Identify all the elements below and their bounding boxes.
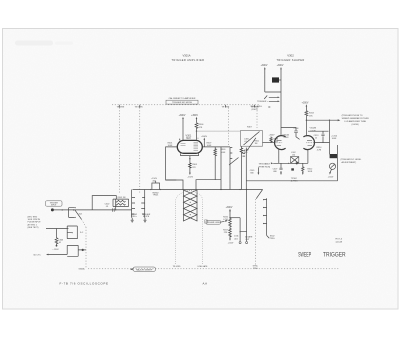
- svg-text:AT TRIG 1: AT TRIG 1: [28, 223, 38, 226]
- svg-text:6U8: 6U8: [186, 138, 191, 140]
- left frame verticals: [245, 148, 247, 190]
- switch section C: [67, 226, 84, 239]
- C311 chain: [234, 190, 253, 244]
- R307 label right of tube: [207, 143, 213, 148]
- svg-text:+300V: +300V: [302, 103, 309, 105]
- svg-text:-150V: -150V: [187, 177, 193, 179]
- svg-text:V302: V302: [287, 54, 294, 58]
- svg-text:+300V: +300V: [179, 115, 186, 117]
- svg-text:-150V: -150V: [228, 242, 234, 244]
- svg-text:FIG 7-6: FIG 7-6: [336, 239, 342, 241]
- resistor R305 with arrows: [187, 157, 197, 179]
- title V302 trigger shaper: [276, 54, 304, 63]
- svg-text:+300V: +300V: [201, 136, 208, 138]
- svg-text:MAJOR SWEEP: MAJOR SWEEP: [136, 269, 153, 272]
- resistor R301 label left of tube: [168, 142, 174, 147]
- svg-text:TRIGGER SHAPER: TRIGGER SHAPER: [276, 58, 304, 62]
- svg-text:100K: 100K: [308, 171, 313, 173]
- wafer ticks col: [229, 148, 245, 190]
- svg-text:+300V: +300V: [191, 115, 198, 117]
- L302 coil: [291, 152, 299, 164]
- switch arrows into rail: [250, 96, 279, 112]
- dashed vertical lower left: [85, 227, 87, 269]
- 60 cyc line: [34, 254, 68, 257]
- svg-text:100K: 100K: [207, 145, 212, 147]
- bus tick labels: [117, 105, 259, 109]
- dashed vertical left pair: [118, 108, 120, 195]
- svg-text:C-45 AMPLIFIER TUBE: C-45 AMPLIFIER TUBE: [344, 120, 367, 123]
- cathode pins under tube: [181, 153, 199, 157]
- svg-text:F-7B 7/6 OSCILLOSCOPE: F-7B 7/6 OSCILLOSCOPE: [60, 282, 109, 286]
- cathode drops with arrows: [273, 163, 314, 175]
- resistor R302: [55, 229, 64, 247]
- test point box TP301: [151, 178, 159, 197]
- svg-text:TRIGGABLE: TRIGGABLE: [259, 163, 271, 166]
- svg-text:+300V: +300V: [226, 207, 233, 209]
- svg-text:(V-45B): (V-45B): [352, 124, 359, 126]
- output arrow: [306, 115, 369, 126]
- tp dark mark: [291, 168, 294, 170]
- tube V301 envelope: [177, 134, 202, 153]
- pot circle: [329, 163, 335, 174]
- dashed bottom bus: [88, 268, 339, 270]
- input note text block: [28, 217, 42, 229]
- svg-text:100K: 100K: [332, 138, 337, 140]
- D mark: [205, 220, 208, 223]
- dashed vertical mid: [227, 108, 229, 148]
- right wafer: [263, 198, 275, 240]
- ground sw right: [143, 218, 146, 222]
- svg-text:1M: 1M: [255, 143, 258, 145]
- component block right of plate: [214, 147, 226, 190]
- faint pencil smudge top-left: [15, 41, 53, 46]
- svg-text:S302A: S302A: [79, 268, 86, 271]
- svg-text:(S302): (S302): [252, 109, 258, 111]
- svg-text:TR GRN: TR GRN: [117, 106, 125, 108]
- delay line lattice: [183, 190, 198, 222]
- switch section D: [67, 245, 86, 256]
- grid wire to V302B from right: [313, 142, 329, 144]
- svg-text:TRIG LEVEL: TRIG LEVEL: [250, 106, 262, 108]
- lower left switch stack S302 section B: [69, 207, 86, 227]
- drop at 258: [250, 168, 260, 176]
- svg-text:A GATE: A GATE: [245, 236, 253, 239]
- coupling cap between: [281, 128, 300, 140]
- resistor R306: [195, 123, 204, 131]
- ground sw left: [131, 218, 134, 222]
- boxed label TRIGGER MC MODE: [166, 100, 198, 104]
- dark resistor box R310: [272, 77, 281, 82]
- grid wire to V302A: [263, 142, 276, 144]
- svg-text:(TRIGGER PULSE TO: (TRIGGER PULSE TO: [342, 115, 363, 117]
- wire plate to shaper grid: [197, 130, 241, 132]
- +300V supply arrows above V301: [179, 115, 199, 141]
- trigger level pot: [223, 207, 234, 245]
- dark box R315: [330, 154, 337, 158]
- svg-text:100K: 100K: [221, 152, 226, 154]
- svg-text:V302B: V302B: [310, 128, 317, 130]
- svg-text:—150V: —150V: [52, 249, 59, 251]
- pot tap wiring: [230, 217, 240, 219]
- svg-text:V301: V301: [185, 134, 191, 137]
- V302A triode half-envelope: [275, 134, 290, 150]
- trigger level box: [206, 220, 228, 224]
- bypass loop: [92, 196, 116, 210]
- svg-text:TR GRID: TR GRID: [173, 266, 181, 268]
- shaper grid box with diagonal: [240, 127, 262, 147]
- svg-text:6: 6: [198, 138, 199, 140]
- svg-text:2: 2: [179, 139, 180, 141]
- svg-text:+300V: +300V: [261, 65, 268, 67]
- +300V screen arrow: [201, 136, 208, 147]
- dashed sync column: [253, 199, 259, 270]
- svg-text:TRIG: TRIG: [270, 238, 275, 240]
- V302B triode half-envelope: [303, 128, 316, 150]
- svg-text:TP301: TP301: [153, 195, 159, 197]
- svg-text:SWEEP GENERATOR THRU: SWEEP GENERATOR THRU: [342, 117, 370, 120]
- lower switch blade: [256, 190, 262, 199]
- grid wire left: [166, 147, 178, 180]
- svg-text:SWEEP: SWEEP: [298, 251, 311, 258]
- svg-text:(FREE RUN): (FREE RUN): [259, 166, 271, 168]
- cap C302: [105, 203, 115, 211]
- below box resistor: [240, 146, 250, 189]
- svg-text:60 CYC: 60 CYC: [34, 255, 42, 257]
- right column R314: [329, 120, 338, 155]
- svg-text:TM GRN: TM GRN: [135, 106, 143, 108]
- text block mid line: [46, 228, 68, 230]
- right border: [337, 145, 339, 181]
- svg-text:SLOPE: SLOPE: [143, 216, 150, 218]
- triggable label: [259, 162, 274, 168]
- svg-text:TRIGGER MC MODE: TRIGGER MC MODE: [172, 102, 193, 104]
- V302B plate chain: [302, 103, 315, 136]
- svg-text:+300V: +300V: [269, 134, 276, 136]
- trigger input connector: [46, 201, 63, 212]
- svg-text:V301A: V301A: [182, 54, 190, 58]
- right column C313 feedback: [308, 131, 329, 151]
- cathode rail: [273, 149, 308, 163]
- svg-text:R302 1M: R302 1M: [118, 197, 126, 199]
- svg-text:INPUT: INPUT: [51, 205, 57, 207]
- svg-text:A.A: A.A: [203, 282, 208, 286]
- main node line A: [133, 189, 263, 191]
- svg-text:A-TRIG: A-TRIG: [291, 179, 298, 182]
- svg-text:680: 680: [250, 172, 253, 174]
- svg-text:4.7M: 4.7M: [317, 149, 322, 151]
- svg-text:TRIGGER LEVEL: TRIGGER LEVEL: [206, 222, 220, 224]
- plate junction node: [196, 130, 197, 131]
- plate wire right: [202, 146, 230, 148]
- svg-text:ADJUSTMENT): ADJUSTMENT): [342, 161, 357, 164]
- +300V rails: [261, 65, 284, 135]
- svg-text:+300V: +300V: [277, 65, 284, 67]
- svg-text:LINE GATE: LINE GATE: [198, 265, 208, 268]
- svg-text:CAL SWEEP TO AMPLIFIER: CAL SWEEP TO AMPLIFIER: [169, 97, 196, 100]
- svg-text:TRIGGER: TRIGGER: [323, 251, 346, 258]
- bias return line: [166, 180, 221, 190]
- svg-text:TRIG: TRIG: [253, 268, 258, 270]
- svg-text:(SEE TEXT): (SEE TEXT): [28, 227, 39, 229]
- svg-text:TRIGGER AMPLIFIER: TRIGGER AMPLIFIER: [172, 58, 205, 62]
- switch wafer SW301: [131, 190, 151, 219]
- minus 150 rail: [246, 180, 337, 182]
- coupling network R301/C301: [113, 197, 129, 210]
- grid divider +300V R308: [269, 134, 279, 143]
- svg-text:4-20-48: 4-20-48: [336, 241, 343, 243]
- svg-text:TRIGGER +: TRIGGER +: [257, 101, 269, 103]
- left diagonal blade: [247, 138, 256, 151]
- title V301A trigger amplifier: [172, 54, 205, 63]
- svg-text:-150V: -150V: [328, 176, 334, 178]
- dashed bus horizontal: [112, 104, 259, 106]
- trigger input wire: [53, 209, 132, 211]
- svg-text:V302A: V302A: [283, 134, 290, 137]
- boxed arrow label: [130, 267, 156, 272]
- delay line dotted envelope: [173, 190, 208, 268]
- svg-text:(TRIGGER DC LEVEL: (TRIGGER DC LEVEL: [341, 159, 363, 161]
- dashed vertical right: [256, 108, 258, 129]
